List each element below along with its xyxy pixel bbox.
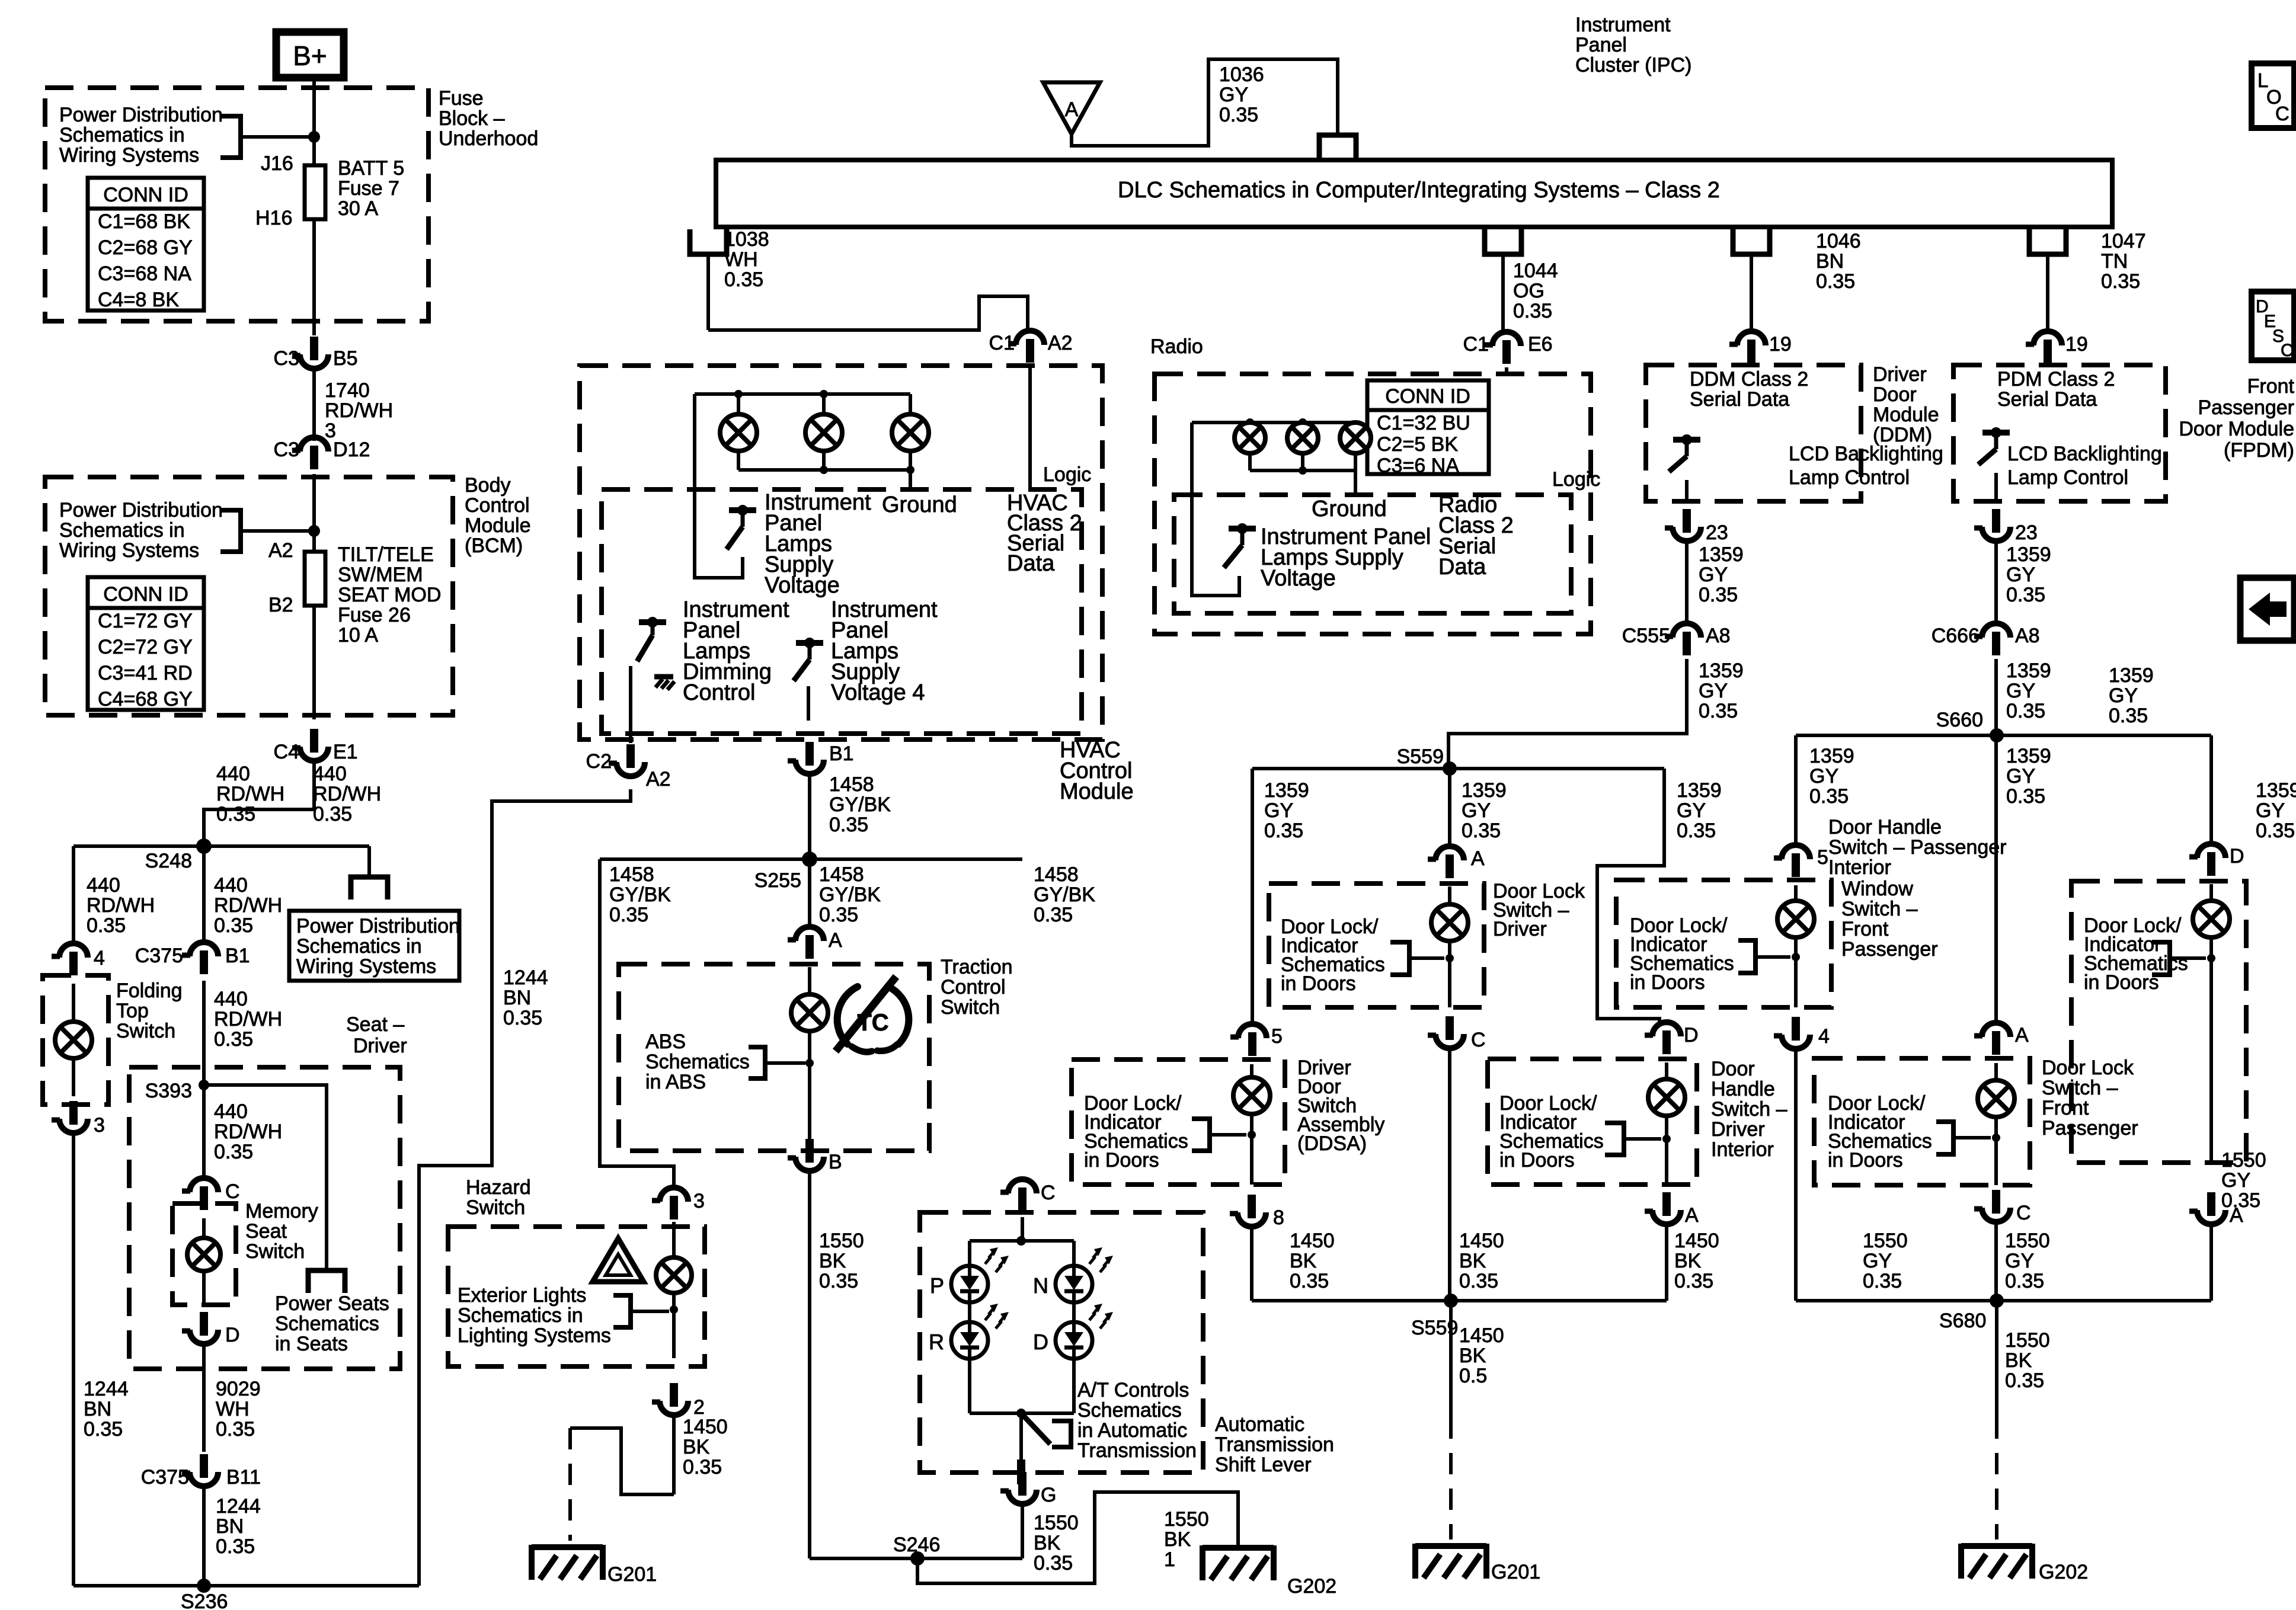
wire 1458 GY/BK to S255 bbox=[808, 773, 811, 853]
node junction ABS reference bbox=[805, 1059, 814, 1067]
connector pin A door handle passenger bbox=[2189, 1192, 2243, 1227]
wire 1359 GY PDM to C666 bbox=[1994, 541, 1998, 623]
svg-text:0.35: 0.35 bbox=[1264, 820, 1303, 842]
component box Memory Seat Switch (dashed) bbox=[172, 1204, 236, 1305]
bracket reference A/T controls bbox=[1052, 1421, 1071, 1447]
svg-text:0.35: 0.35 bbox=[1699, 700, 1738, 722]
wire lamp to connector C bbox=[1994, 1117, 1998, 1185]
connector C375 pin B11 bbox=[141, 1454, 261, 1489]
wire HVAC lamp supply bus bbox=[695, 392, 910, 396]
svg-text:Switch: Switch bbox=[245, 1240, 305, 1263]
connector pin 5 window switch front passenger bbox=[1774, 845, 1828, 877]
svg-text:1359: 1359 bbox=[2256, 779, 2296, 802]
svg-text:0.35: 0.35 bbox=[609, 904, 648, 926]
svg-text:1458: 1458 bbox=[829, 773, 874, 796]
label Door Lock Indicator Schematics in Doors 5 bbox=[2084, 914, 2188, 994]
label Power Seats Schematics in Seats bbox=[275, 1292, 389, 1355]
svg-text:C2=5 BK: C2=5 BK bbox=[1377, 433, 1458, 456]
LED P park indicator bbox=[930, 1247, 1009, 1302]
svg-text:Control: Control bbox=[683, 680, 756, 705]
svg-text:0.35: 0.35 bbox=[724, 268, 763, 291]
value label 1458 GY/BK left branch bbox=[609, 863, 671, 926]
node S248 splice bbox=[145, 838, 212, 872]
svg-text:Control: Control bbox=[465, 494, 530, 517]
svg-text:GY: GY bbox=[1699, 680, 1728, 702]
svg-text:Data: Data bbox=[1007, 551, 1055, 576]
svg-text:1450: 1450 bbox=[1459, 1230, 1504, 1252]
connector pin A door lock switch front passenger bbox=[1974, 1023, 2029, 1055]
pin J16 bbox=[261, 152, 293, 175]
svg-text:1450: 1450 bbox=[1290, 1230, 1335, 1252]
component box Door Handle Switch Driver Interior (dashed) bbox=[1488, 1059, 1697, 1185]
svg-text:3: 3 bbox=[693, 1190, 705, 1212]
svg-text:Power Distribution: Power Distribution bbox=[59, 104, 223, 126]
label Instrument Panel Lamps Supply Voltage 4 bbox=[831, 597, 938, 705]
svg-text:GY: GY bbox=[2256, 799, 2285, 822]
value label 1550 GY 0.35 center bbox=[2005, 1230, 2050, 1292]
svg-text:in Doors: in Doors bbox=[1281, 972, 1356, 995]
connector pin D memory seat switch bbox=[182, 1312, 240, 1346]
svg-text:0.35: 0.35 bbox=[1809, 785, 1849, 808]
wire radio lamp ground bus bbox=[1250, 466, 1355, 475]
wire 1450 BK DDSA to S559 bus bbox=[1250, 1225, 1253, 1301]
svg-text:RD/WH: RD/WH bbox=[216, 783, 284, 805]
connector pin 5 DDSA bbox=[1230, 1024, 1283, 1056]
svg-text:440: 440 bbox=[214, 874, 248, 897]
label Instrument Panel Cluster IPC bbox=[1575, 14, 1691, 76]
svg-text:Automatic: Automatic bbox=[1215, 1413, 1304, 1436]
svg-text:1359: 1359 bbox=[1264, 779, 1309, 802]
svg-text:5: 5 bbox=[1271, 1025, 1283, 1048]
value label 1450 BK 0.35 right bbox=[1674, 1230, 1719, 1292]
svg-text:Wiring Systems: Wiring Systems bbox=[296, 955, 436, 978]
wire 1036 GY from IPC to DLC bus bbox=[1072, 59, 1338, 146]
wire 1244 BN to S236 bbox=[202, 1485, 206, 1586]
svg-text:Voltage: Voltage bbox=[1261, 566, 1336, 591]
svg-text:BK: BK bbox=[1459, 1345, 1486, 1367]
svg-text:Passenger: Passenger bbox=[1841, 938, 1938, 961]
svg-text:BK: BK bbox=[1164, 1528, 1191, 1551]
label Seat - Driver bbox=[346, 1013, 407, 1057]
value label BATT 5 Fuse 7 30 A bbox=[338, 157, 404, 220]
svg-text:0.35: 0.35 bbox=[313, 803, 352, 825]
node junction door lock reference 1 bbox=[1446, 954, 1454, 962]
svg-text:Switch –: Switch – bbox=[1711, 1098, 1787, 1121]
svg-text:0.35: 0.35 bbox=[503, 1007, 542, 1029]
svg-text:Power Distribution: Power Distribution bbox=[59, 499, 223, 521]
svg-text:B11: B11 bbox=[226, 1466, 261, 1489]
svg-text:D: D bbox=[1033, 1330, 1048, 1354]
label HVAC Control Module bbox=[1060, 738, 1134, 804]
connector pin C door lock switch driver bbox=[1428, 1016, 1486, 1051]
wire radio lamp feeds bbox=[1250, 422, 1303, 424]
svg-text:0.35: 0.35 bbox=[1219, 104, 1258, 126]
svg-text:C: C bbox=[2016, 1202, 2031, 1224]
wire 1244 BN folding top to S236 bbox=[72, 1133, 75, 1586]
value label 1244 BN 0.35 riser bbox=[503, 966, 548, 1029]
component box Door Lock Switch Front Passenger (dashed) bbox=[1814, 1058, 2030, 1185]
lamp HVAC panel illumination lamps x3 bbox=[720, 414, 929, 451]
svg-text:R: R bbox=[929, 1330, 944, 1354]
svg-text:GY/BK: GY/BK bbox=[1034, 884, 1095, 906]
svg-text:SEAT MOD: SEAT MOD bbox=[338, 584, 441, 606]
label Folding Top Switch bbox=[116, 980, 183, 1042]
lamp door lock switch driver indicator bbox=[1431, 904, 1468, 941]
svg-text:C3: C3 bbox=[274, 347, 299, 370]
connector pin 4 window switch bbox=[1774, 1017, 1830, 1049]
svg-text:Block –: Block – bbox=[439, 107, 505, 130]
node junction exterior lights reference bbox=[670, 1305, 678, 1314]
svg-text:Wiring Systems: Wiring Systems bbox=[59, 539, 199, 562]
module box Fuse Block - Underhood (dashed) bbox=[45, 88, 428, 321]
connector C2 pin A2 HVAC dimming output bbox=[586, 744, 671, 790]
connector pin D door handle switch driver interior bbox=[1645, 1022, 1699, 1054]
svg-text:1550: 1550 bbox=[819, 1230, 864, 1252]
bracket reference door lock schematics 6 bbox=[1936, 1122, 1991, 1154]
wire radio serial data stub bbox=[1505, 367, 1508, 374]
svg-text:Driver: Driver bbox=[1493, 918, 1547, 940]
svg-text:1550: 1550 bbox=[1164, 1508, 1209, 1531]
svg-text:GY: GY bbox=[1863, 1250, 1892, 1272]
svg-text:0.35: 0.35 bbox=[1034, 1552, 1073, 1574]
svg-text:in Automatic: in Automatic bbox=[1077, 1419, 1187, 1442]
value label 1550 GY 0.35 left bbox=[1863, 1230, 1908, 1292]
svg-text:GY/BK: GY/BK bbox=[829, 793, 891, 816]
svg-text:Control: Control bbox=[941, 976, 1006, 998]
connector C1 pin E6 radio bbox=[1463, 332, 1553, 364]
svg-text:C: C bbox=[2275, 103, 2289, 124]
svg-text:Window: Window bbox=[1841, 878, 1913, 900]
wire R LED to return bus bbox=[968, 1359, 971, 1413]
svg-text:0.35: 0.35 bbox=[216, 803, 255, 825]
node S660 splice bbox=[1936, 709, 2004, 742]
label Driver Door Switch Assembly DDSA bbox=[1297, 1057, 1384, 1155]
svg-text:RD/WH: RD/WH bbox=[214, 1121, 282, 1143]
wire S559 lower splice bus bbox=[1252, 1299, 1667, 1302]
value label 1550 GY 0.35 right outer bbox=[2221, 1149, 2266, 1212]
wire DDSA lamp to connector 8 bbox=[1250, 1114, 1253, 1185]
svg-text:Module: Module bbox=[465, 514, 531, 537]
wire S248 to folding top switch bbox=[72, 846, 75, 943]
logic box HVAC (dashed) bbox=[602, 489, 1082, 734]
svg-text:Switch: Switch bbox=[941, 996, 1000, 1019]
label Instrument Panel Lamps Supply Voltage radio bbox=[1261, 524, 1431, 591]
wire into door lock driver lamp bbox=[1448, 886, 1451, 905]
svg-text:Logic: Logic bbox=[1043, 463, 1091, 486]
svg-text:Schematics in: Schematics in bbox=[296, 935, 422, 958]
svg-text:8: 8 bbox=[1273, 1206, 1284, 1229]
wire S236 splice bus bbox=[73, 1584, 419, 1587]
svg-text:G202: G202 bbox=[2039, 1561, 2088, 1583]
svg-text:GY: GY bbox=[2221, 1169, 2250, 1192]
svg-text:3: 3 bbox=[94, 1114, 105, 1137]
value label 1244 BN 0.35 lower bbox=[216, 1495, 261, 1558]
svg-text:Schematics: Schematics bbox=[1077, 1399, 1182, 1422]
svg-text:1458: 1458 bbox=[819, 863, 864, 886]
node junction door lock reference 5 bbox=[2207, 954, 2215, 962]
node junction at fuse block feed bbox=[308, 131, 320, 143]
svg-text:1: 1 bbox=[1164, 1548, 1175, 1571]
wire 1450 BK hazard ground lead bbox=[672, 1414, 676, 1494]
svg-text:S660: S660 bbox=[1936, 709, 1983, 731]
connector pin C door lock switch front passenger bbox=[1974, 1190, 2031, 1224]
label A/T Controls Schematics in Automatic Transmission bbox=[1077, 1379, 1197, 1462]
svg-text:A2: A2 bbox=[646, 768, 671, 790]
connector pin A door handle switch driver interior bbox=[1645, 1192, 1699, 1227]
svg-text:GY: GY bbox=[2006, 564, 2035, 586]
wire 1359 GY to door lock switch driver bbox=[1448, 769, 1451, 846]
wire S559 splice bus bbox=[1252, 767, 1664, 770]
bracket reference door lock schematics 1 bbox=[1390, 942, 1444, 975]
LED R reverse indicator bbox=[929, 1304, 1009, 1359]
svg-text:in ABS: in ABS bbox=[645, 1071, 706, 1093]
svg-text:Top: Top bbox=[116, 1000, 149, 1022]
svg-text:E1: E1 bbox=[333, 741, 358, 763]
connector pin 8 DDSA bbox=[1230, 1195, 1284, 1229]
svg-text:0.35: 0.35 bbox=[87, 914, 126, 937]
svg-text:A2: A2 bbox=[268, 539, 293, 562]
svg-text:Ground: Ground bbox=[882, 492, 957, 517]
svg-text:Door: Door bbox=[1711, 1058, 1755, 1080]
connector C1 pin A2 HVAC bbox=[989, 331, 1073, 363]
node S246 splice bbox=[893, 1534, 940, 1566]
value label 1550 BK 0.35 shift lever bbox=[1034, 1512, 1079, 1574]
svg-text:C3: C3 bbox=[274, 438, 299, 461]
switch lever A/T position contact bbox=[1021, 1413, 1050, 1444]
value label 1359 GY S660 below left bbox=[1809, 745, 1854, 808]
svg-text:C2=68 GY: C2=68 GY bbox=[98, 236, 193, 259]
label PDM Class 2 Serial Data bbox=[1997, 368, 2115, 411]
svg-text:BK: BK bbox=[819, 1250, 846, 1272]
wire branch to power distribution reference bbox=[351, 846, 388, 900]
svg-text:GY: GY bbox=[1462, 799, 1491, 822]
wire lamp to connector C bbox=[1448, 941, 1451, 1007]
svg-text:LCD Backlighting: LCD Backlighting bbox=[2007, 443, 2162, 465]
svg-text:0.35: 0.35 bbox=[2221, 1189, 2260, 1212]
svg-text:1450: 1450 bbox=[1674, 1230, 1719, 1252]
label Front Passenger Door Module FPDM bbox=[2179, 375, 2294, 462]
connector pin B1 HVAC lamps supply output bbox=[788, 742, 854, 774]
bracket reference to Power Distribution schematics bbox=[220, 116, 314, 158]
svg-text:0.35: 0.35 bbox=[2109, 705, 2148, 727]
svg-text:C1=32 BU: C1=32 BU bbox=[1377, 412, 1470, 434]
svg-text:Serial Data: Serial Data bbox=[1690, 388, 1789, 411]
module box PDM logic (dashed) bbox=[1953, 365, 2166, 501]
svg-text:BATT 5: BATT 5 bbox=[338, 157, 404, 180]
wire 1359 GY DDM to C555 bbox=[1685, 541, 1689, 623]
svg-text:DLC Schematics in Computer/Int: DLC Schematics in Computer/Integrating S… bbox=[1118, 178, 1720, 203]
svg-text:30 A: 30 A bbox=[338, 197, 378, 220]
off-page connector A Instrument Panel Cluster triangle bbox=[1043, 82, 1100, 134]
svg-text:BK: BK bbox=[683, 1436, 710, 1458]
node lamp bus junctions bbox=[734, 390, 828, 398]
label DDM Class 2 Serial Data bbox=[1690, 368, 1808, 411]
connector pin 23 PDM bbox=[1974, 509, 2038, 544]
svg-text:BK: BK bbox=[1034, 1532, 1061, 1554]
svg-text:RD/WH: RD/WH bbox=[313, 783, 381, 805]
svg-text:0.35: 0.35 bbox=[1290, 1270, 1329, 1292]
icon traction control TC off symbol bbox=[836, 977, 909, 1052]
svg-text:1550: 1550 bbox=[1863, 1230, 1908, 1252]
svg-text:1244: 1244 bbox=[84, 1378, 129, 1400]
wire into window switch lamp bbox=[1794, 885, 1798, 902]
switch instrument panel lamps dimming control bbox=[631, 617, 674, 743]
svg-text:Power Seats: Power Seats bbox=[275, 1292, 389, 1315]
svg-text:GY: GY bbox=[1809, 765, 1838, 788]
svg-text:Front: Front bbox=[2247, 375, 2295, 398]
svg-text:0.5: 0.5 bbox=[1459, 1365, 1487, 1387]
svg-text:Driver: Driver bbox=[353, 1035, 407, 1057]
svg-text:Lamp Control: Lamp Control bbox=[2007, 466, 2128, 489]
label Power Distribution Schematics in Wiring Systems (fuse block) bbox=[59, 104, 223, 167]
component box Door Handle Switch Passenger Interior (dashed) bbox=[2071, 881, 2246, 1163]
label Radio Class 2 Serial Data bbox=[1438, 492, 1514, 580]
svg-text:GY: GY bbox=[2005, 1250, 2034, 1272]
wire 9029 WH to C375 bbox=[202, 1343, 206, 1452]
svg-text:19: 19 bbox=[2065, 333, 2088, 356]
wire into BCM fuse bbox=[312, 474, 316, 552]
svg-text:Switch –: Switch – bbox=[2042, 1077, 2118, 1099]
wire 1359 GY C555 to S559 bbox=[1448, 659, 1687, 763]
svg-text:23: 23 bbox=[2015, 521, 2038, 544]
svg-text:Traction: Traction bbox=[941, 956, 1013, 978]
svg-text:0.35: 0.35 bbox=[84, 1418, 123, 1441]
wire hazard lamp to connector 2 bbox=[672, 1293, 676, 1358]
label Door Handle Switch - Driver Interior bbox=[1711, 1058, 1787, 1161]
svg-text:C1=72 GY: C1=72 GY bbox=[98, 610, 193, 632]
wire lamp to connector 3 bbox=[72, 1058, 75, 1096]
svg-text:440: 440 bbox=[216, 763, 250, 785]
lamp door handle switch passenger interior bbox=[2193, 901, 2230, 937]
svg-text:Memory: Memory bbox=[245, 1200, 318, 1222]
svg-text:0.35: 0.35 bbox=[1034, 904, 1073, 926]
svg-text:B5: B5 bbox=[333, 347, 358, 370]
label Driver Door Module DDM bbox=[1873, 363, 1939, 446]
svg-text:Interior: Interior bbox=[1711, 1138, 1774, 1161]
label LCD Backlighting Lamp Control DDM bbox=[1789, 443, 1943, 489]
connector pin C shift lever indicator bbox=[1000, 1179, 1056, 1211]
wire radio lamp supply bus bbox=[1192, 421, 1356, 424]
wire lamp to connector A bbox=[1665, 1116, 1668, 1185]
svg-text:S680: S680 bbox=[1939, 1310, 1986, 1332]
wire 1244 BN riser to HVAC dimming control bbox=[419, 789, 631, 1586]
wire lamp bus to logic ground bbox=[909, 470, 912, 489]
connector pin A door lock switch driver bbox=[1428, 846, 1485, 878]
svg-text:E6: E6 bbox=[1528, 333, 1553, 356]
label Ground HVAC bbox=[882, 492, 957, 517]
value label 1047 TN 0.35 bbox=[2101, 230, 2146, 293]
svg-text:19: 19 bbox=[1769, 333, 1792, 356]
svg-text:Driver: Driver bbox=[1711, 1118, 1765, 1141]
svg-text:0.35: 0.35 bbox=[1462, 820, 1501, 842]
svg-text:DDM Class 2: DDM Class 2 bbox=[1690, 368, 1808, 391]
wire radio lamp returns bbox=[1250, 453, 1355, 470]
svg-text:GY: GY bbox=[2109, 684, 2138, 707]
svg-text:in Doors: in Doors bbox=[2084, 971, 2159, 994]
svg-text:B2: B2 bbox=[268, 594, 293, 616]
svg-text:Module: Module bbox=[1873, 404, 1939, 426]
svg-text:A: A bbox=[1065, 98, 1079, 121]
value label 1044 OG 0.35 bbox=[1513, 260, 1558, 322]
fuse BATT 5 Fuse 7 30 A bbox=[305, 165, 325, 219]
svg-text:SW/MEM: SW/MEM bbox=[338, 564, 423, 586]
svg-text:Shift Lever: Shift Lever bbox=[1215, 1454, 1312, 1476]
svg-text:1038: 1038 bbox=[724, 228, 769, 251]
svg-text:C: C bbox=[225, 1180, 240, 1203]
connector pin 19 PDM bbox=[2026, 331, 2088, 363]
svg-text:B1: B1 bbox=[225, 945, 250, 967]
label ABS Schematics in ABS bbox=[645, 1030, 750, 1093]
svg-text:0.35: 0.35 bbox=[1863, 1270, 1902, 1292]
svg-text:BN: BN bbox=[503, 987, 531, 1009]
svg-text:C375: C375 bbox=[135, 945, 183, 967]
node S559 splice bbox=[1397, 745, 1457, 776]
node junction door lock reference 2 bbox=[1248, 1131, 1256, 1139]
wire 1550 GY window switch to S680 bbox=[1794, 1048, 1798, 1301]
ground G202 interior bbox=[1203, 1545, 1336, 1598]
connector pin 3 folding top switch bbox=[52, 1101, 105, 1137]
module box Seat - Driver (dashed) bbox=[129, 1067, 400, 1369]
wire 1359 GY to DDSA connector 5 bbox=[1251, 769, 1254, 1024]
value label 1450 BK 0.5 bbox=[1459, 1324, 1504, 1387]
label Door Handle Switch - Passenger Interior bbox=[1828, 816, 2007, 879]
wire 1550 BK traction to S246 bbox=[808, 1170, 811, 1558]
wire 440 RD/WH to memory seat switch bbox=[202, 1085, 206, 1178]
wire dashed lead to ground G201 bbox=[568, 1428, 572, 1541]
lamp radio illumination lamps x3 bbox=[1235, 422, 1371, 453]
svg-text:CONN ID: CONN ID bbox=[103, 583, 188, 606]
module box HVAC Control Module (dashed) bbox=[580, 366, 1102, 740]
ground G202 right bbox=[1961, 1544, 2088, 1583]
svg-text:1458: 1458 bbox=[1034, 863, 1079, 886]
svg-text:0.35: 0.35 bbox=[1513, 300, 1552, 322]
connector pin 23 DDM bbox=[1665, 509, 1728, 544]
label box Power Distribution Schematics in Wiring Systems bbox=[289, 911, 460, 981]
bracket reference exterior lights bbox=[613, 1295, 669, 1327]
svg-text:A8: A8 bbox=[1706, 625, 1731, 647]
svg-text:1550: 1550 bbox=[1034, 1512, 1079, 1534]
svg-text:Switch: Switch bbox=[466, 1196, 525, 1219]
reference box DESC bbox=[2252, 292, 2294, 360]
svg-text:Hazard: Hazard bbox=[466, 1176, 531, 1199]
svg-text:GY: GY bbox=[1264, 799, 1293, 822]
svg-text:Exterior Lights: Exterior Lights bbox=[458, 1284, 586, 1307]
value label 1458 GY/BK center branch bbox=[819, 863, 881, 926]
svg-text:Cluster (IPC): Cluster (IPC) bbox=[1575, 54, 1691, 76]
table CONN ID fuse block connectors bbox=[88, 178, 204, 311]
svg-text:1359: 1359 bbox=[1699, 543, 1744, 566]
svg-text:1359: 1359 bbox=[2006, 745, 2051, 767]
value label 1244 BN 0.35 left bbox=[84, 1378, 129, 1441]
svg-text:C3=41 RD: C3=41 RD bbox=[98, 662, 193, 684]
svg-text:GY: GY bbox=[2006, 765, 2035, 788]
lamp door handle switch driver interior bbox=[1648, 1079, 1685, 1116]
svg-text:Wiring Systems: Wiring Systems bbox=[59, 144, 199, 167]
module box DDM logic (dashed) bbox=[1646, 365, 1861, 501]
svg-text:0.35: 0.35 bbox=[1674, 1270, 1713, 1292]
value label 440 RD/WH below C375 bbox=[214, 988, 282, 1051]
svg-text:1359: 1359 bbox=[1677, 779, 1722, 802]
svg-text:LCD Backlighting: LCD Backlighting bbox=[1789, 443, 1943, 465]
svg-text:C666: C666 bbox=[1932, 625, 1980, 647]
staple and wire 1044 OG from DLC bus bbox=[1485, 229, 1521, 332]
value label 1046 BN 0.35 bbox=[1816, 230, 1861, 293]
power symbol B+ battery feed terminal bbox=[276, 32, 344, 78]
wire into door handle passenger lamp bbox=[2209, 884, 2213, 902]
svg-text:0.35: 0.35 bbox=[1816, 270, 1855, 293]
value label 440 RD/WH left branch bbox=[87, 874, 155, 937]
svg-text:1359: 1359 bbox=[1462, 779, 1507, 802]
